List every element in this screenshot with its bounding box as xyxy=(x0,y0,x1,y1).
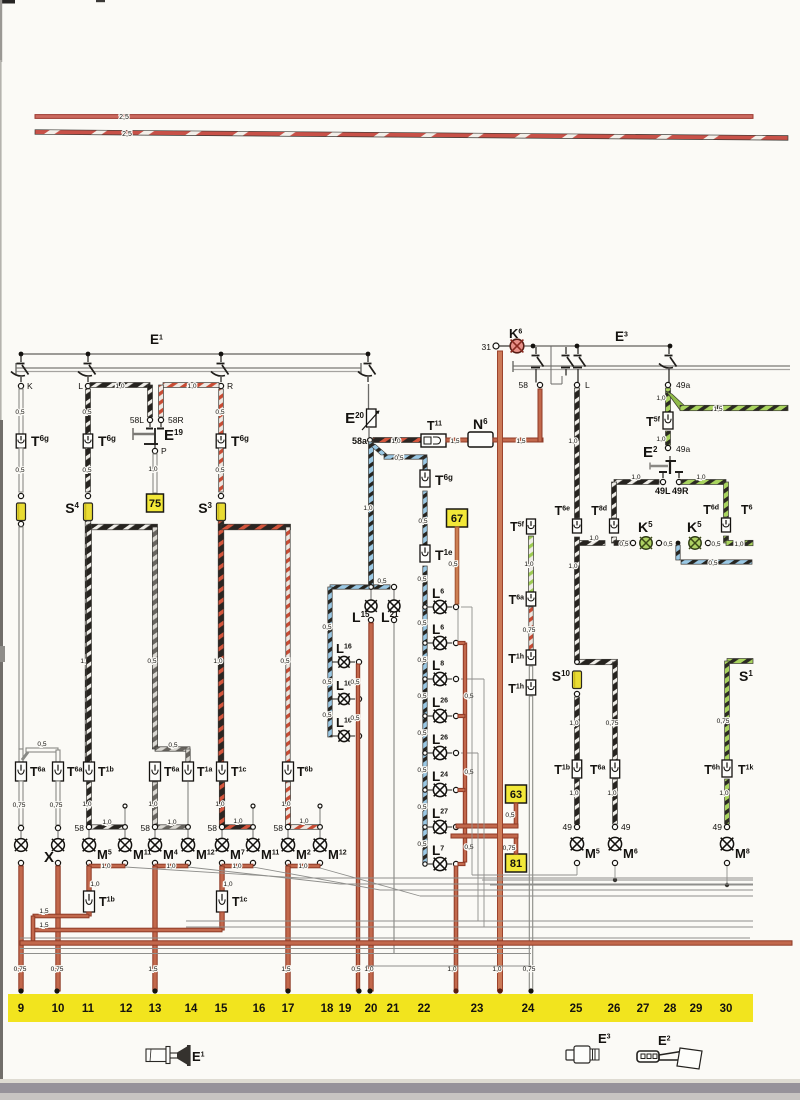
wire 67 plug drop xyxy=(447,509,468,527)
svg-text:0,5: 0,5 xyxy=(711,541,720,548)
svg-text:1,0: 1,0 xyxy=(568,438,577,445)
connector T1a col D xyxy=(183,762,194,781)
relay N5 xyxy=(468,432,493,447)
thin rail c xyxy=(366,965,531,967)
svg-text:0,5: 0,5 xyxy=(37,741,46,748)
svg-text:0,5: 0,5 xyxy=(15,467,24,474)
svg-text:0,5: 0,5 xyxy=(417,804,426,811)
wire red M4 drop xyxy=(153,866,157,991)
svg-text:1,0: 1,0 xyxy=(391,438,400,445)
connector T6e xyxy=(573,519,582,533)
svg-text:24: 24 xyxy=(522,1003,535,1015)
svg-text:0,75: 0,75 xyxy=(50,802,63,809)
terminal below fuse col K xyxy=(18,521,23,526)
svg-text:0,5: 0,5 xyxy=(505,812,514,819)
connector T1b col C xyxy=(84,762,95,781)
terminal below L21 xyxy=(391,617,396,622)
link line long c xyxy=(20,937,750,939)
lamp L26 xyxy=(423,751,427,755)
wire S10b green elbow xyxy=(727,659,753,664)
svg-text:0,5: 0,5 xyxy=(464,769,473,776)
wire T11 to N xyxy=(446,438,470,442)
svg-text:1,0: 1,0 xyxy=(167,819,176,826)
wire S3 loop xyxy=(218,521,224,762)
wire to M7 xyxy=(221,830,223,838)
bracket wire mid switches xyxy=(550,346,552,384)
svg-text:0,5: 0,5 xyxy=(417,730,426,737)
svg-text:0,5: 0,5 xyxy=(82,409,91,416)
wire to M5 xyxy=(88,830,90,838)
terminal F right xyxy=(318,825,323,830)
thin ground riser a xyxy=(471,607,473,875)
wire 49a green branch right xyxy=(666,391,686,410)
wire S4 loop xyxy=(85,521,91,762)
connector T1h lower xyxy=(526,680,536,695)
svg-text:2,5: 2,5 xyxy=(122,131,132,138)
junction dots E3 bus xyxy=(531,344,536,349)
terminal dot bottom x456 xyxy=(453,988,458,993)
svg-text:22: 22 xyxy=(418,1003,431,1015)
connector T1b right xyxy=(572,760,582,778)
svg-text:1,0: 1,0 xyxy=(631,474,640,481)
wire blue mid xyxy=(423,491,427,545)
svg-text:58L: 58L xyxy=(130,415,144,425)
stub riser E xyxy=(252,808,254,824)
svg-text:0,5: 0,5 xyxy=(322,624,331,631)
junction dot E1 bus x368 xyxy=(366,352,371,357)
headlamp M4 xyxy=(148,838,161,851)
svg-text:58: 58 xyxy=(208,823,218,833)
wire red L16 chain xyxy=(356,664,359,991)
plug 81 xyxy=(506,854,527,872)
stub red lamp chain xyxy=(458,788,465,791)
svg-text:1,0: 1,0 xyxy=(101,863,110,870)
tail lamp M6 xyxy=(608,837,621,850)
svg-text:10: 10 xyxy=(52,1003,65,1015)
wire red bottom bus xyxy=(20,941,792,945)
wire red M4-M12 link xyxy=(155,864,188,868)
connector T1h upper xyxy=(526,650,536,665)
switch L on E3 bus xyxy=(577,347,579,354)
rheostat E20 xyxy=(367,409,377,427)
terminal dot bottom x21 xyxy=(18,988,23,993)
connector T6h xyxy=(722,760,732,777)
tail lamp M8 xyxy=(720,837,733,850)
ground symbol E19 xyxy=(149,422,151,427)
wire 31 to K6 xyxy=(499,345,510,347)
connector T6g col R xyxy=(216,434,226,448)
headlamp M11 xyxy=(118,838,131,851)
legend icon E1 xyxy=(146,1049,166,1062)
wire 58R striped xyxy=(163,383,219,388)
stub red lamp chain xyxy=(458,714,465,717)
terminal K5 left a xyxy=(630,540,635,545)
wire 58 drop xyxy=(538,389,542,442)
connector T6a mid xyxy=(526,592,536,606)
svg-text:0,5: 0,5 xyxy=(464,844,473,851)
svg-text:1,0: 1,0 xyxy=(102,819,111,826)
wire E20 to 58a xyxy=(368,427,370,437)
svg-text:31: 31 xyxy=(482,342,492,352)
svg-text:67: 67 xyxy=(451,513,463,525)
wire 49a green short xyxy=(666,388,671,412)
svg-text:23: 23 xyxy=(471,1003,484,1015)
terminal dot bottom x359 xyxy=(356,988,361,993)
svg-text:1,0: 1,0 xyxy=(281,801,290,808)
wire below T1c E xyxy=(219,782,224,825)
switch contact on E1 bus x221 xyxy=(220,355,222,362)
connector T6g col K xyxy=(16,434,26,448)
wire green white mid xyxy=(529,536,534,592)
wire red chain to bars xyxy=(456,824,518,828)
terminal below L15 xyxy=(368,617,373,622)
svg-text:1,5: 1,5 xyxy=(516,438,525,445)
connector T6a col1 xyxy=(16,762,27,781)
wire to M2 xyxy=(287,830,289,838)
svg-text:1,5: 1,5 xyxy=(713,406,722,413)
switch 58 on E3 bus xyxy=(535,347,537,354)
junction blue drop xyxy=(676,541,681,546)
svg-text:0,75: 0,75 xyxy=(523,627,536,634)
wire below T1b C xyxy=(87,782,92,825)
wire below T6e xyxy=(575,537,580,662)
connector T6g mid xyxy=(420,470,430,487)
terminal dot bottom x155 xyxy=(152,988,157,993)
svg-text:30: 30 xyxy=(720,1003,733,1015)
terminal below M12 xyxy=(185,860,190,865)
terminal 49 M6 xyxy=(612,824,617,829)
lamp L26 xyxy=(423,714,427,718)
terminal L21 top xyxy=(391,584,396,589)
connector T6a col D xyxy=(150,762,161,781)
svg-text:0,5: 0,5 xyxy=(417,576,426,583)
wire grey T1h xyxy=(529,666,532,680)
connector T6g col L xyxy=(83,434,93,448)
wire blue branch down xyxy=(423,457,427,470)
svg-text:58: 58 xyxy=(141,823,151,833)
wire grey 24 drop xyxy=(529,696,532,991)
svg-text:49: 49 xyxy=(621,822,631,832)
svg-text:11: 11 xyxy=(82,1003,95,1015)
svg-text:58: 58 xyxy=(519,380,529,390)
wire 49R green down xyxy=(724,482,729,517)
wire thin to X1 xyxy=(20,830,22,839)
terminal col2 xyxy=(55,825,60,830)
svg-text:63: 63 xyxy=(510,789,522,801)
svg-text:13: 13 xyxy=(149,1003,162,1015)
terminal dot bottom x500 xyxy=(497,988,502,993)
terminal dot bottom x57 xyxy=(54,988,59,993)
svg-text:1,0: 1,0 xyxy=(166,863,175,870)
wire grey col K long xyxy=(19,527,23,749)
wire 49L striped down xyxy=(612,482,617,518)
wire to M12b xyxy=(319,829,321,838)
lamp L15 xyxy=(370,590,372,600)
terminal P xyxy=(152,448,157,453)
wire below T6d xyxy=(724,536,729,543)
wire red below T1b bottom xyxy=(87,912,91,916)
svg-text:1,5: 1,5 xyxy=(39,922,48,929)
svg-text:0,5: 0,5 xyxy=(708,560,717,567)
side marker lamp L16 1 xyxy=(332,661,338,663)
wire N5 to 58 node xyxy=(493,438,543,442)
lamp L8 xyxy=(423,677,427,681)
terminal 49a top xyxy=(665,382,670,387)
scan bottom grey bar xyxy=(0,1083,800,1093)
wire striped col C xyxy=(87,525,92,762)
thin rail b xyxy=(20,953,531,955)
svg-text:0,5: 0,5 xyxy=(448,561,457,568)
svg-text:1,0: 1,0 xyxy=(187,383,196,390)
svg-text:0,5: 0,5 xyxy=(15,409,24,416)
connector T6b col F xyxy=(283,762,294,781)
wire red striped mid xyxy=(529,607,533,650)
svg-text:1,0: 1,0 xyxy=(656,436,665,443)
plug 63 xyxy=(506,785,527,803)
svg-text:26: 26 xyxy=(608,1003,621,1015)
svg-text:17: 17 xyxy=(282,1003,295,1015)
svg-text:1,0: 1,0 xyxy=(524,561,533,568)
svg-text:0,75: 0,75 xyxy=(606,720,619,727)
svg-text:0,5: 0,5 xyxy=(147,658,156,665)
connector T11 xyxy=(421,434,446,447)
wire red X2 bottom xyxy=(56,866,60,991)
lamp L21 xyxy=(393,590,395,600)
wire red T1c elbow xyxy=(33,928,222,932)
wire S10 branch xyxy=(577,659,618,664)
wire 49R green right xyxy=(681,480,726,485)
thin ground riser b xyxy=(477,753,479,921)
link line long a xyxy=(186,920,753,922)
scan mark top-left corner xyxy=(0,0,15,4)
svg-text:1,0: 1,0 xyxy=(82,801,91,808)
bus E1 thin line xyxy=(21,353,368,355)
svg-text:16: 16 xyxy=(253,1003,266,1015)
lamp L6 xyxy=(423,605,427,609)
terminal 58L xyxy=(147,417,152,422)
svg-text:0,5: 0,5 xyxy=(351,966,360,973)
wire 58a striped red to T11 xyxy=(373,438,421,443)
svg-text:0,75: 0,75 xyxy=(717,718,730,725)
tail lamp M5 right xyxy=(570,837,583,850)
stub riser D xyxy=(187,782,189,824)
svg-text:1,0: 1,0 xyxy=(492,966,501,973)
terminal below M11 xyxy=(122,860,127,865)
wire col1 to term xyxy=(19,781,23,825)
svg-text:49L: 49L xyxy=(655,486,671,496)
link line fan 2 xyxy=(188,867,340,884)
wire red lamp chain vertical xyxy=(457,609,459,641)
link line fan 1 xyxy=(125,867,300,878)
headlamp M2 xyxy=(281,838,294,851)
wire below S10 xyxy=(575,697,580,760)
wire red elbow drop xyxy=(31,916,35,943)
wire L striped black xyxy=(86,389,91,434)
wire P to 75 xyxy=(153,454,157,493)
lamp X1 xyxy=(15,839,28,852)
wire chain to L21 xyxy=(374,585,390,589)
lamp X2 xyxy=(52,839,65,852)
side marker lamp L16 2 xyxy=(332,698,338,700)
wire red M7 drop xyxy=(220,866,224,891)
wire to M4 xyxy=(154,830,156,838)
svg-text:1,0: 1,0 xyxy=(148,466,157,473)
wire green below T6h xyxy=(725,779,730,824)
terminal below M11b xyxy=(250,860,255,865)
switch 49a on E3 bus xyxy=(668,347,670,354)
headlamp M12 second xyxy=(313,838,326,851)
svg-text:14: 14 xyxy=(185,1003,198,1015)
terminal K5 right b xyxy=(705,540,710,545)
switch contact on E1 bus x88 xyxy=(87,355,89,362)
wire R striped red xyxy=(219,389,224,434)
svg-text:1,0: 1,0 xyxy=(223,881,232,888)
terminal below X2 xyxy=(55,860,60,865)
junction 58a chain xyxy=(369,585,374,590)
connector T6a right xyxy=(610,760,620,778)
svg-text:0,5: 0,5 xyxy=(417,841,426,848)
headlamp M11 second xyxy=(246,838,259,851)
svg-text:19: 19 xyxy=(339,1003,352,1015)
svg-text:81: 81 xyxy=(510,858,522,870)
scan left edge line xyxy=(0,60,2,420)
wire red M7-M11 link xyxy=(222,864,253,868)
wire green M8 column xyxy=(725,661,730,760)
stub red lamp chain xyxy=(458,641,465,644)
terminal dot bottom x531 xyxy=(528,988,533,993)
svg-text:75: 75 xyxy=(149,498,161,510)
svg-text:0,75: 0,75 xyxy=(14,966,27,973)
terminal 58R xyxy=(158,417,163,422)
svg-text:29: 29 xyxy=(690,1003,703,1015)
wire blue K5 drop xyxy=(676,545,680,560)
wire red below L7 to bottom xyxy=(454,866,458,991)
wire thin to X2 xyxy=(57,830,59,839)
switch mid on E3 bus xyxy=(565,347,567,354)
wire grey below L21 xyxy=(393,623,395,953)
svg-text:0,5: 0,5 xyxy=(322,679,331,686)
terminal below S10 xyxy=(574,691,579,696)
wire grey below T6g xyxy=(19,448,23,492)
connector T1b bottom xyxy=(84,891,95,912)
svg-text:1,0: 1,0 xyxy=(568,563,577,570)
connector T1c bottom xyxy=(217,891,228,912)
svg-text:49a: 49a xyxy=(676,444,690,454)
connector T5f mid xyxy=(527,519,536,534)
svg-text:1,5: 1,5 xyxy=(39,908,48,915)
svg-text:12: 12 xyxy=(120,1003,133,1015)
thin ground riser c xyxy=(483,679,485,927)
svg-text:1,0: 1,0 xyxy=(115,383,124,390)
svg-text:15: 15 xyxy=(215,1003,228,1015)
terminal below M7 xyxy=(219,860,224,865)
svg-text:1,0: 1,0 xyxy=(298,863,307,870)
svg-text:0,5: 0,5 xyxy=(350,679,359,686)
terminal below X1 xyxy=(18,860,23,865)
switch contact on E1 bus x368 xyxy=(367,355,369,362)
svg-text:0,5: 0,5 xyxy=(168,742,177,749)
svg-text:1,0: 1,0 xyxy=(90,881,99,888)
svg-text:1,0: 1,0 xyxy=(364,966,373,973)
svg-text:0,5: 0,5 xyxy=(215,409,224,416)
wire red X1 bottom xyxy=(19,866,23,991)
svg-text:0,5: 0,5 xyxy=(215,467,224,474)
svg-text:1,0: 1,0 xyxy=(589,535,598,542)
svg-text:58: 58 xyxy=(75,823,85,833)
terminal D right xyxy=(186,825,191,830)
svg-text:0,5: 0,5 xyxy=(619,541,628,548)
svg-text:0,5: 0,5 xyxy=(417,693,426,700)
svg-text:0,5: 0,5 xyxy=(350,715,359,722)
svg-text:1,0: 1,0 xyxy=(299,818,308,825)
wire striped below T6g col R xyxy=(219,448,224,492)
link line M6 ground xyxy=(482,879,753,881)
svg-text:0,5: 0,5 xyxy=(417,657,426,664)
bus E3 double rail xyxy=(513,365,790,367)
svg-text:0,75: 0,75 xyxy=(51,966,64,973)
svg-text:21: 21 xyxy=(387,1003,400,1015)
terminal below M2 xyxy=(285,860,290,865)
wire below T6a D xyxy=(153,782,158,825)
headlamp M7 xyxy=(215,838,228,851)
stub red lamp chain xyxy=(458,862,465,865)
headlamp M5 xyxy=(82,838,95,851)
svg-text:1,0: 1,0 xyxy=(569,790,578,797)
terminal above fuse S4 xyxy=(85,493,90,498)
svg-text:49: 49 xyxy=(713,822,723,832)
lamp L27 xyxy=(423,825,427,829)
svg-text:0,5: 0,5 xyxy=(322,712,331,719)
svg-text:49a: 49a xyxy=(676,380,690,390)
terminal below M8 xyxy=(724,860,729,865)
link line long b xyxy=(186,926,753,928)
wire 58a blue branch xyxy=(369,444,388,455)
wire K grey xyxy=(19,389,23,434)
svg-text:0,75: 0,75 xyxy=(13,802,26,809)
wire to M12 xyxy=(187,829,189,838)
svg-text:1,0: 1,0 xyxy=(232,863,241,870)
wire striped below T6g col L xyxy=(86,448,91,492)
connector T1c col E xyxy=(217,762,228,781)
svg-text:1,0: 1,0 xyxy=(696,474,705,481)
terminal 49a lower xyxy=(665,445,670,450)
wire blue to lamp chain xyxy=(423,566,427,864)
thin rail a xyxy=(20,948,531,950)
svg-text:0,5: 0,5 xyxy=(417,767,426,774)
svg-text:25: 25 xyxy=(570,1003,583,1015)
wire red below T1c bottom xyxy=(220,912,224,930)
terminal 49R xyxy=(676,479,681,484)
wire 30 feed solid red 2,5 xyxy=(35,115,753,119)
svg-text:0,75: 0,75 xyxy=(503,845,516,852)
svg-text:2,5: 2,5 xyxy=(119,114,129,121)
wire to M11b xyxy=(252,829,254,838)
svg-text:X: X xyxy=(44,849,54,866)
wire K5 chain right striped xyxy=(745,540,753,545)
svg-text:1,0: 1,0 xyxy=(607,790,616,797)
svg-text:R: R xyxy=(227,381,233,391)
connector T5f right xyxy=(663,412,673,429)
svg-text:20: 20 xyxy=(365,1003,378,1015)
link line M8 ground xyxy=(490,884,753,886)
wire red T1b elbow xyxy=(33,914,89,918)
terminal below M12b xyxy=(317,860,322,865)
svg-text:1,0: 1,0 xyxy=(215,801,224,808)
svg-text:1,0: 1,0 xyxy=(569,720,578,727)
connector T6a col2 xyxy=(53,762,64,781)
wire striped red 2,5 xyxy=(35,130,788,141)
terminal K5 left b xyxy=(656,540,661,545)
